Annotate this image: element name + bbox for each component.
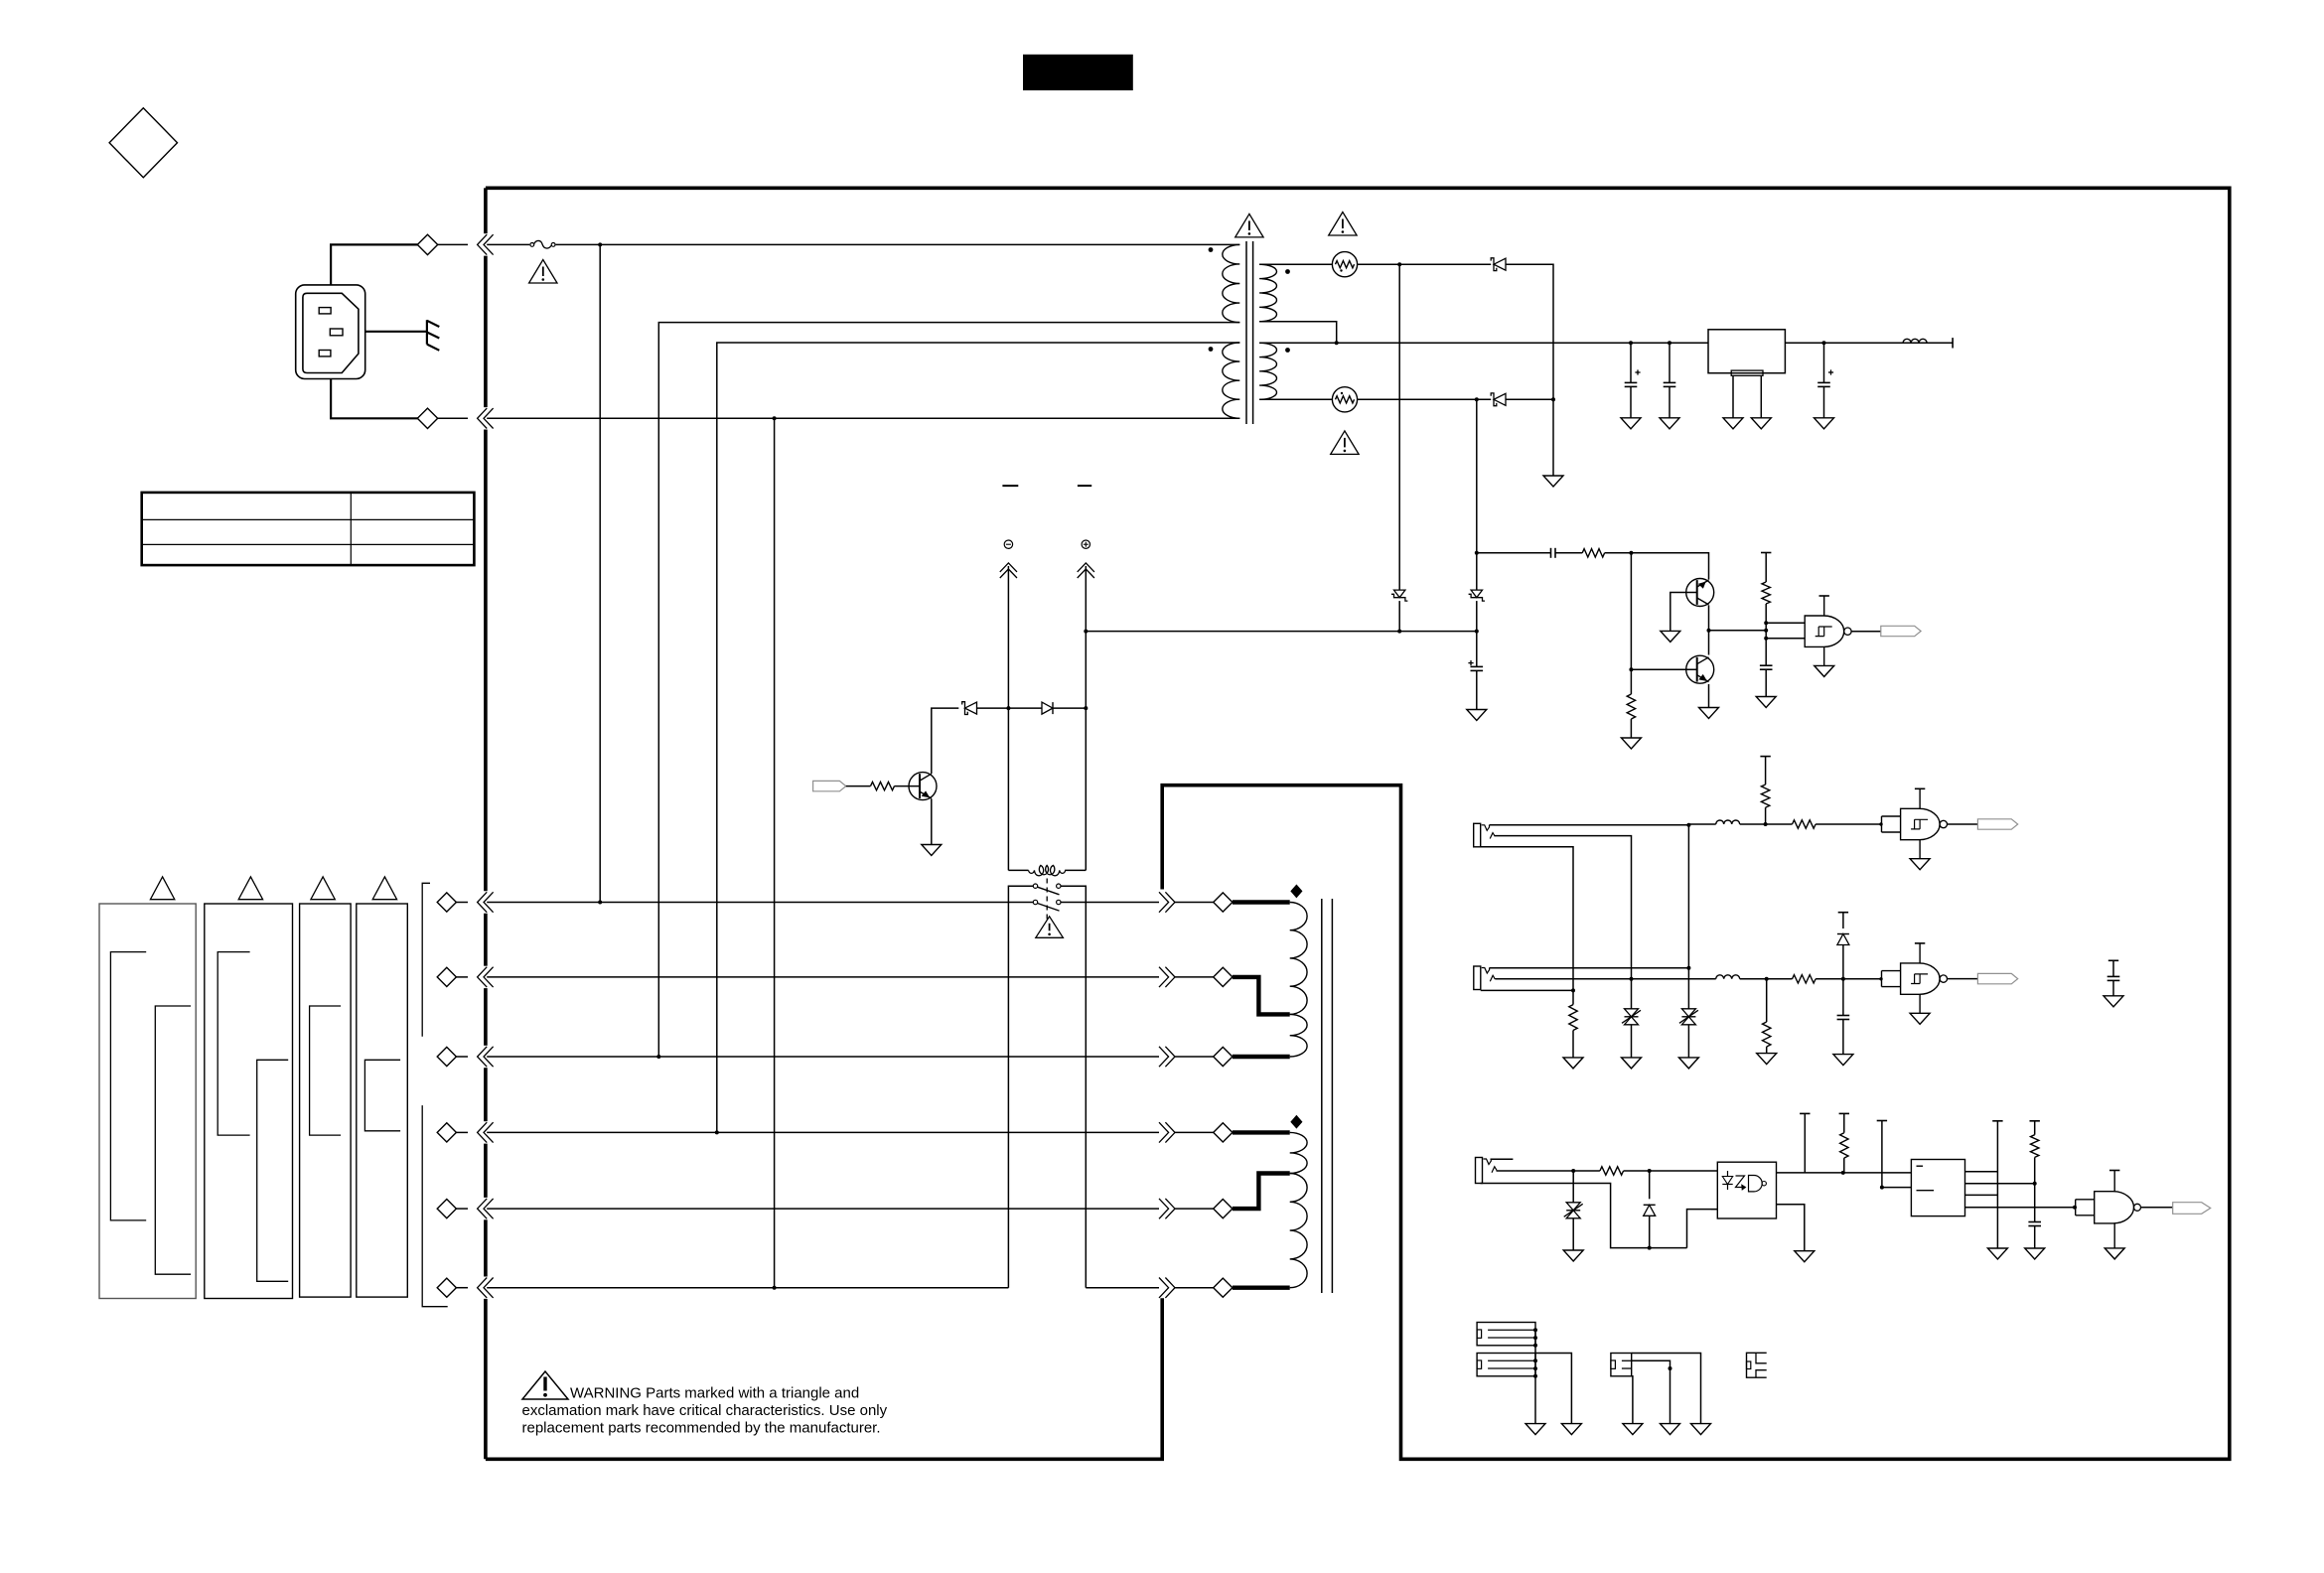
output tag U2 bbox=[1977, 819, 2017, 829]
dash plus bbox=[1078, 485, 1091, 487]
transistor Q1 bbox=[909, 773, 937, 800]
wire th1 right bbox=[1358, 262, 1492, 266]
ground cn3 pin2 bbox=[1661, 1424, 1680, 1435]
wire r10 opto bbox=[1624, 1169, 1718, 1173]
ground reg2 bbox=[1751, 418, 1771, 429]
resistor R4 bbox=[871, 782, 895, 789]
row1 chevron right bbox=[1159, 892, 1214, 912]
row6 wire right bbox=[1086, 1287, 1159, 1289]
wire c5 r1 bbox=[1555, 552, 1582, 554]
warning triangle th1 bbox=[1329, 213, 1357, 236]
ground C4 bbox=[1467, 710, 1487, 721]
capacitor C4 bbox=[1468, 632, 1483, 710]
T1 phase dot 1 bbox=[1209, 247, 1214, 252]
wire tag r4 bbox=[846, 786, 871, 787]
block1 bracket a bbox=[110, 952, 146, 1220]
wire neutral to T1 bbox=[487, 416, 1205, 420]
ground C9 bbox=[2025, 1248, 2045, 1259]
schmitt gate U1 bbox=[1805, 596, 1851, 676]
T1 core bbox=[1246, 241, 1253, 424]
ground opto bbox=[1795, 1251, 1815, 1262]
row4 diamond right bbox=[1214, 1123, 1233, 1142]
wire D1 node down bbox=[1398, 264, 1400, 590]
wire ic2 out bbox=[1965, 1206, 2078, 1210]
wire d3 node bbox=[977, 707, 1009, 709]
border outline (main block) bbox=[486, 188, 2230, 1459]
capacitor C2 bbox=[1664, 343, 1676, 418]
ground TVS2 bbox=[1678, 1058, 1698, 1069]
resistor R5 bbox=[1761, 785, 1769, 807]
T2 winding upper a bbox=[1290, 903, 1307, 1015]
wire th2 right bbox=[1358, 397, 1492, 401]
tvs TVS1 bbox=[1622, 979, 1641, 1058]
zener ZD1 bbox=[1391, 590, 1407, 601]
wire node down bbox=[1552, 399, 1554, 476]
row2 chevron right bbox=[1159, 967, 1214, 987]
ground R2 bbox=[1621, 738, 1641, 749]
connector diamond live bbox=[417, 234, 437, 254]
stub row6 bbox=[1233, 1285, 1290, 1289]
svg-text:exclamation mark have critical: exclamation mark have critical character… bbox=[522, 1402, 888, 1419]
chevron neutral bbox=[478, 408, 494, 428]
chassis ground bbox=[427, 320, 439, 351]
wire fuse to T1 bbox=[556, 242, 1223, 246]
wire to border neutral bbox=[438, 417, 468, 419]
connector CN2 bbox=[1477, 1354, 1535, 1376]
wire feeder neutral bbox=[774, 418, 776, 1287]
tick ic2 pin2 bbox=[1877, 1121, 1887, 1188]
row5 chevron left bbox=[456, 1199, 493, 1218]
wire cn3 pin2 bbox=[1632, 1360, 1672, 1423]
nand gate U4 bbox=[2076, 1171, 2141, 1248]
selector block 4 bbox=[357, 904, 408, 1297]
T1 phase dot 2 bbox=[1285, 269, 1290, 274]
row3 diamond right bbox=[1214, 1047, 1233, 1066]
row4 diamond bbox=[437, 1123, 456, 1142]
ground reg1 bbox=[1723, 418, 1743, 429]
wire contactA right bbox=[1061, 886, 1086, 1287]
row2 diamond right bbox=[1214, 967, 1233, 986]
block3 bracket bbox=[310, 1006, 342, 1135]
selector block 2 bbox=[205, 904, 293, 1299]
wire to border live bbox=[438, 243, 468, 245]
row6 diamond right bbox=[1214, 1278, 1233, 1297]
row5 wire bbox=[487, 1208, 1159, 1210]
wire node d4 bbox=[1008, 707, 1042, 709]
ground diodes bbox=[1543, 476, 1563, 487]
wire q2 base bbox=[1670, 593, 1697, 632]
warning triangle bottom bbox=[522, 1371, 568, 1399]
wire reg gnd1 bbox=[1732, 375, 1734, 418]
wire jk3 sleeve bbox=[1481, 1184, 1687, 1250]
tick chain right bbox=[1992, 1121, 2002, 1248]
inductor L2 bbox=[1688, 820, 1767, 826]
row5 chevron right bbox=[1159, 1199, 1214, 1218]
wire opto pullup tick bbox=[1800, 1113, 1810, 1173]
triangle block3 bbox=[311, 877, 335, 900]
resistor R11 bbox=[1840, 1133, 1848, 1173]
wire gate3 in bbox=[1843, 977, 1883, 980]
wire u1 in a bbox=[1766, 622, 1805, 624]
input tag relay bbox=[813, 781, 846, 790]
row6 chevron left bbox=[456, 1278, 493, 1298]
ground cn3 pin3 bbox=[1623, 1424, 1643, 1435]
table bbox=[142, 493, 475, 565]
terminal tick rail bbox=[1952, 338, 1954, 348]
wire tick r3 bbox=[1765, 553, 1767, 583]
wire ic2 r3 bbox=[1965, 1194, 1998, 1196]
ground TVS1 bbox=[1622, 1058, 1642, 1069]
polarity plus bbox=[1082, 540, 1089, 548]
diode D2 bbox=[1491, 393, 1506, 406]
relay coil RY1 bbox=[1008, 865, 1086, 875]
block2 bracket a bbox=[218, 952, 249, 1136]
wire ic2 r1 bbox=[1965, 1171, 1998, 1173]
ground cn3 pin1 bbox=[1691, 1424, 1711, 1435]
ground q2 base bbox=[1661, 631, 1680, 642]
wire u2 out bbox=[1948, 823, 1978, 825]
wire rc bbox=[1477, 552, 1551, 554]
T2 phase dot upper bbox=[1291, 885, 1302, 897]
wire contactA left bbox=[1008, 886, 1033, 1287]
ground q3 bbox=[1699, 708, 1719, 719]
relay contact A bbox=[1033, 884, 1061, 895]
row1 diamond right bbox=[1214, 893, 1233, 912]
T1 phase dot 3 bbox=[1209, 347, 1214, 352]
regulator IC1 bbox=[1708, 330, 1785, 376]
ground R8 bbox=[1563, 1058, 1583, 1069]
wire cn2 top bbox=[1535, 1354, 1571, 1424]
wire T1 tap upper bbox=[658, 323, 1223, 1057]
resistor R7 bbox=[1767, 975, 1845, 983]
wire jk2 ring bbox=[1495, 977, 1715, 981]
wire plus feed bbox=[1084, 566, 1088, 870]
triangle block2 bbox=[238, 877, 262, 900]
row5 diamond bbox=[437, 1200, 456, 1218]
thermistor TH2 bbox=[1332, 387, 1357, 412]
resistor R3 bbox=[1762, 582, 1770, 604]
wire out mid bbox=[1709, 629, 1769, 633]
float cap C8 bbox=[2107, 960, 2120, 996]
tvs TVS2 bbox=[1679, 968, 1698, 1058]
ground chain right bbox=[1987, 1248, 2007, 1259]
wire q1 collector bbox=[932, 708, 959, 774]
diode D4 bbox=[1042, 702, 1053, 714]
row2 diamond bbox=[437, 967, 456, 986]
row1 chevron left bbox=[456, 892, 493, 912]
zener ZD2 bbox=[1469, 590, 1485, 601]
wire d6 node bbox=[1842, 945, 1844, 979]
wire u4 out bbox=[2141, 1207, 2173, 1209]
resistor R8 bbox=[1569, 990, 1577, 1058]
row6 wire left bbox=[487, 1286, 1008, 1290]
wire node corner bbox=[1631, 553, 1708, 580]
wire rail bbox=[1335, 341, 1953, 345]
capacitor C9 bbox=[2028, 1184, 2041, 1248]
row2 wire bbox=[487, 976, 1159, 978]
ground TVS3 bbox=[1563, 1250, 1583, 1261]
wire jk1 tip bbox=[1490, 823, 1691, 827]
wire jk1 sleeve bbox=[1481, 847, 1573, 991]
ground q1 bbox=[922, 845, 942, 856]
wire jk1 tip down bbox=[1686, 825, 1690, 970]
wire u3 out bbox=[1948, 978, 1978, 980]
T2 winding lower a bbox=[1290, 1132, 1307, 1173]
wire d4 node bbox=[1053, 707, 1086, 709]
T1 phase dot 4 bbox=[1285, 348, 1290, 353]
comparator IC2 bbox=[1911, 1160, 1964, 1216]
capacitor C7 bbox=[1837, 979, 1850, 1055]
schmitt gate U2 bbox=[1882, 788, 1948, 869]
ground R9 bbox=[1757, 1054, 1777, 1065]
T2 phase dot lower bbox=[1291, 1116, 1302, 1128]
block1 bracket b bbox=[155, 1006, 191, 1274]
wire r3 node bbox=[1764, 604, 1768, 665]
triangle block1 bbox=[150, 877, 174, 900]
jack JK1 bbox=[1474, 823, 1496, 847]
wire q3 base bbox=[1631, 668, 1696, 670]
triangle block4 bbox=[372, 877, 396, 900]
wire D2 node bbox=[1506, 397, 1555, 401]
warning triangle th2 bbox=[1331, 431, 1359, 455]
row3 diamond bbox=[437, 1047, 456, 1066]
ground cn2 top bbox=[1561, 1424, 1581, 1435]
arrow plus bbox=[1078, 563, 1094, 578]
resistor R2 bbox=[1627, 694, 1635, 719]
relay contact B bbox=[1033, 900, 1061, 911]
selector block 3 bbox=[300, 904, 352, 1297]
ground C8 bbox=[2104, 996, 2123, 1007]
cable bracket lower bbox=[422, 1105, 448, 1307]
row6 diamond bbox=[437, 1278, 456, 1297]
stub row1 bbox=[1233, 900, 1290, 904]
T1 primary winding lower bbox=[1206, 343, 1240, 418]
wire q2 collector bbox=[1707, 605, 1711, 632]
row1 wire right bbox=[1061, 902, 1159, 904]
wire minus feed bbox=[1006, 566, 1010, 870]
capacitor C1 bbox=[1625, 343, 1641, 418]
wire ic2 pin2 bbox=[1880, 1186, 1912, 1190]
wire r1 node bbox=[1605, 551, 1634, 555]
ground U4 bbox=[2105, 1248, 2124, 1259]
row4 chevron right bbox=[1159, 1122, 1214, 1142]
polarity minus bbox=[1004, 540, 1012, 548]
cable bracket upper bbox=[422, 883, 430, 1036]
wire T1 tap lower bbox=[717, 343, 1223, 1132]
transistor Q3 bbox=[1686, 655, 1714, 683]
AC inlet J1 bbox=[296, 285, 365, 379]
wire ZD2 down bbox=[1475, 601, 1479, 634]
block4 bracket bbox=[364, 1060, 400, 1131]
dash minus bbox=[1002, 485, 1018, 487]
warning triangle T1 top bbox=[1235, 214, 1263, 237]
schmitt gate U3 bbox=[1882, 943, 1948, 1024]
jack JK2 bbox=[1474, 966, 1496, 990]
diode D5 bbox=[1644, 1171, 1656, 1248]
optocoupler PC1 bbox=[1711, 1162, 1777, 1218]
resistor R6 bbox=[1766, 820, 1883, 828]
wire jk2 tip bbox=[1490, 967, 1689, 969]
row3 chevron right bbox=[1159, 1047, 1214, 1067]
wire jk3 ring bbox=[1497, 1169, 1600, 1173]
stub row3 bbox=[1233, 1055, 1290, 1059]
wire q3 emitter bbox=[1708, 684, 1710, 708]
row4 wire bbox=[487, 1130, 1159, 1134]
connector CN3 bbox=[1611, 1354, 1632, 1376]
ground C3 bbox=[1815, 418, 1834, 429]
T2 winding lower b bbox=[1290, 1174, 1307, 1288]
row2 chevron left bbox=[456, 967, 493, 987]
wire r5 down bbox=[1765, 807, 1767, 824]
supply tick R5 bbox=[1760, 757, 1770, 785]
T1 secondary winding lower bbox=[1259, 343, 1337, 399]
connector diamond neutral bbox=[417, 408, 437, 428]
wire opto out bbox=[1777, 1171, 1912, 1175]
wire feeder 1 bbox=[599, 244, 601, 902]
title block (filled) bbox=[1023, 55, 1133, 90]
ground C6 bbox=[1756, 697, 1776, 708]
resistor R9 bbox=[1763, 979, 1771, 1054]
ground C7 bbox=[1833, 1055, 1853, 1066]
wire AC neutral bbox=[331, 379, 418, 419]
row4 chevron left bbox=[456, 1122, 493, 1142]
diode D3 bbox=[962, 702, 977, 715]
relay dashed link bbox=[1046, 879, 1048, 920]
wire r chain bbox=[1629, 553, 1633, 694]
inductor L3 bbox=[1716, 975, 1769, 981]
selector block 1 bbox=[99, 904, 196, 1299]
wire node2 down bbox=[1475, 399, 1479, 590]
svg-text:replacement parts recommended: replacement parts recommended by the man… bbox=[522, 1419, 881, 1436]
wire cn bus bbox=[1533, 1328, 1537, 1423]
wire q1 emitter bbox=[931, 798, 933, 844]
output tag U1 bbox=[1881, 626, 1921, 636]
wire r4 base bbox=[895, 786, 921, 787]
warning triangle fuse bbox=[529, 260, 557, 284]
T2 core bbox=[1322, 899, 1333, 1293]
supply tick D6 bbox=[1838, 913, 1848, 929]
stub row4 bbox=[1233, 1130, 1290, 1134]
inductor L1 bbox=[1903, 339, 1927, 343]
row5 diamond right bbox=[1214, 1200, 1233, 1218]
capacitor C6 bbox=[1760, 665, 1773, 696]
T2 winding upper b bbox=[1290, 1014, 1307, 1057]
T1 primary winding upper bbox=[1223, 244, 1240, 322]
svg-text:WARNING Parts marked with a tr: WARNING Parts marked with a triangle and bbox=[570, 1385, 859, 1402]
capacitor C3 bbox=[1817, 343, 1833, 418]
wire ZD1 down bbox=[1397, 601, 1401, 634]
diode D6 bbox=[1837, 934, 1849, 945]
T1 secondary winding upper bbox=[1259, 264, 1337, 343]
diode D1 bbox=[1491, 258, 1506, 271]
resistor R12 bbox=[2031, 1135, 2039, 1184]
ground cn bus bbox=[1525, 1424, 1545, 1435]
wire u1 in b bbox=[1766, 638, 1805, 640]
row3 chevron left bbox=[456, 1047, 493, 1067]
supply tick R12 bbox=[2030, 1121, 2040, 1135]
wire cn3 pin3 bbox=[1632, 1376, 1633, 1424]
chevron live bbox=[478, 234, 494, 254]
wire opto gnd pin bbox=[1777, 1205, 1805, 1251]
wire D1 to gnd node bbox=[1506, 264, 1553, 399]
wire minus rail bbox=[1086, 631, 1477, 633]
wire sleeve up bbox=[1687, 1210, 1718, 1248]
warning text bbox=[522, 1385, 888, 1437]
wire q2 q3 bbox=[1708, 631, 1710, 655]
wire AC earth bbox=[365, 331, 427, 333]
tvs TVS3 bbox=[1564, 1171, 1583, 1250]
stub row2 bbox=[1233, 977, 1290, 1015]
wire u1 out bbox=[1851, 631, 1881, 633]
row1 wire bbox=[487, 901, 1033, 905]
row6 chevron right bbox=[1159, 1278, 1214, 1298]
output tag U4 bbox=[2173, 1203, 2211, 1215]
wire ic2 r2 bbox=[1965, 1182, 2037, 1186]
wire AC live bbox=[331, 244, 418, 285]
ground C2 bbox=[1660, 418, 1679, 429]
wire reg gnd2 bbox=[1760, 375, 1762, 418]
wire cn3 pin1 bbox=[1632, 1354, 1701, 1424]
resistor R10 bbox=[1600, 1167, 1624, 1175]
wire r2 gnd bbox=[1630, 719, 1632, 738]
row1 diamond bbox=[437, 893, 456, 912]
arrow minus bbox=[1000, 563, 1017, 578]
stub row5 bbox=[1233, 1174, 1290, 1210]
ground C1 bbox=[1621, 418, 1641, 429]
warning triangle relay bbox=[1036, 917, 1064, 938]
output tag U3 bbox=[1977, 973, 2017, 983]
wire jk2 sleeve bbox=[1481, 988, 1575, 992]
fuse F1 bbox=[530, 240, 555, 248]
capacitor C5 bbox=[1551, 548, 1556, 558]
wire jk3 tip stub bbox=[1491, 1158, 1514, 1160]
wire live to fuse bbox=[487, 243, 529, 245]
resistor R1 bbox=[1582, 549, 1604, 557]
block2 bracket b bbox=[257, 1060, 289, 1281]
jack JK3 bbox=[1476, 1158, 1498, 1184]
thermistor TH1 bbox=[1332, 252, 1357, 277]
logo diamond bbox=[109, 108, 177, 178]
connector CN1 bbox=[1477, 1323, 1535, 1346]
transistor Q2 bbox=[1686, 579, 1714, 607]
supply tick R11 bbox=[1839, 1113, 1849, 1132]
connector CN4 bbox=[1747, 1353, 1767, 1377]
supply tick R3 bbox=[1761, 552, 1771, 554]
row3 wire bbox=[487, 1055, 1159, 1059]
wire jk1 ring bbox=[1495, 836, 1632, 979]
